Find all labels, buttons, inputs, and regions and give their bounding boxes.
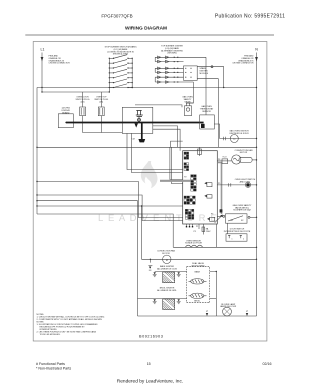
svg-text:SONDE DU FOUR: SONDE DU FOUR: [185, 243, 202, 245]
svg-text:2: 2: [243, 239, 244, 241]
svg-text:# Functional Parts: # Functional Parts: [36, 362, 65, 366]
svg-text:BAKE: BAKE: [195, 270, 201, 273]
svg-text:IGNITEUR DE FOUR: IGNITEUR DE FOUR: [229, 133, 249, 135]
svg-text:MOTOR: MOTOR: [162, 253, 170, 255]
svg-text:Publication No: 5995E72911: Publication No: 5995E72911: [215, 14, 285, 20]
svg-text:250V: 250V: [206, 231, 211, 233]
svg-text:ALLUMEUR DE CUIS: ALLUMEUR DE CUIS: [157, 267, 177, 270]
svg-text:P5: P5: [218, 183, 220, 185]
svg-text:L1: L1: [41, 48, 45, 52]
svg-text:CROWN CONNECTOR: CROWN CONNECTOR: [232, 63, 254, 65]
svg-text:02/16: 02/16: [263, 362, 272, 366]
svg-text:ALLUMEUR DE GRIL: ALLUMEUR DE GRIL: [157, 289, 177, 292]
svg-text:2. COMPONENTS WITH * DO NOT A: 2. COMPONENTS WITH * DO NOT APPEAR ON AL…: [37, 318, 103, 321]
svg-text:P8: P8: [218, 159, 220, 161]
svg-text:P2: P2: [184, 177, 186, 179]
svg-text:L E A D V E N T U R E: L E A D V E N T U R E: [98, 213, 218, 224]
svg-text:MOTOR: MOTOR: [240, 152, 248, 154]
svg-text:SOUPAPE DE GAZ: SOUPAPE DE GAZ: [233, 209, 251, 212]
svg-text:1: 1: [232, 239, 233, 241]
svg-text:P1: P1: [196, 226, 198, 228]
svg-text:WIRING DIAGRAM: WIRING DIAGRAM: [125, 26, 167, 32]
svg-text:TCO: TCO: [222, 157, 227, 159]
svg-text:SENSOR: SENSOR: [202, 111, 211, 113]
svg-text:LAMPE DE FOUR: LAMPE DE FOUR: [220, 305, 237, 308]
svg-text:MODULE: MODULE: [200, 73, 209, 75]
svg-text:CROWN CONNECTOR: CROWN CONNECTOR: [49, 63, 71, 65]
svg-text:BROIL: BROIL: [194, 301, 201, 303]
svg-text:INTERRUPTEUR DE PORTE: INTERRUPTEUR DE PORTE: [224, 231, 251, 233]
svg-text:P12: P12: [185, 157, 188, 159]
svg-text:* Non-Illustrated Parts: * Non-Illustrated Parts: [36, 367, 71, 371]
svg-text:TOUS LES MODELES.: TOUS LES MODELES.: [40, 334, 61, 336]
svg-text:N: N: [255, 48, 258, 52]
svg-text:Rendered by LeadVenture, Inc.: Rendered by LeadVenture, Inc.: [117, 379, 183, 385]
svg-text:FPGF3077QFB: FPGF3077QFB: [101, 14, 132, 19]
svg-text:15: 15: [147, 362, 151, 366]
svg-text:(SHOWN): (SHOWN): [168, 53, 177, 55]
svg-text:B09216903: B09216903: [139, 335, 163, 339]
svg-text:P3: P3: [211, 214, 213, 216]
